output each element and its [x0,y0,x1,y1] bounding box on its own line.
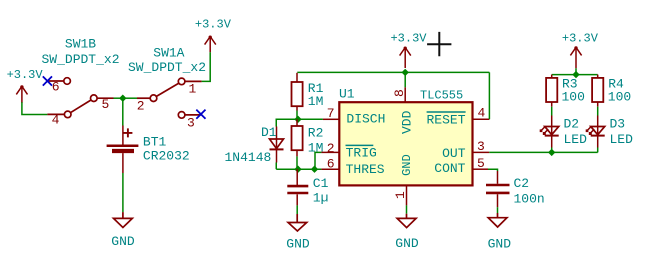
svg-text:CR2032: CR2032 [143,149,190,164]
junction [548,149,555,156]
svg-text:1: 1 [188,82,196,97]
wire [123,97,137,99]
pin 7 stub [323,118,339,120]
svg-text:100: 100 [608,89,631,104]
svg-text:U1: U1 [339,87,355,102]
svg-text:C2: C2 [514,176,530,191]
wire (top rail) [297,71,489,73]
wire [551,107,553,116]
svg-text:100: 100 [562,89,585,104]
pin 4 stub [473,118,489,120]
svg-text:1N4148: 1N4148 [225,150,272,165]
resistor R3 [546,75,557,107]
capacitor C1 [287,169,308,205]
diode D1 [270,127,284,163]
wire (pin2 net) [315,152,321,169]
wire [122,173,124,212]
resistor R1 [292,73,303,111]
svg-text:LED: LED [564,132,588,147]
wire [275,163,277,170]
svg-text:SW_DPDT_x2: SW_DPDT_x2 [41,52,119,67]
svg-text:6: 6 [52,79,60,94]
power +3.3V P3 (VDD) [400,48,411,69]
power +3.3V P2 (SW1A pin1) [205,37,216,53]
svg-text:+3.3V: +3.3V [390,32,427,46]
svg-text:D2: D2 [564,117,580,132]
wire [202,52,211,81]
capacitor C2 [486,171,510,207]
ground (battery) [114,212,133,227]
svg-text:LED: LED [610,132,634,147]
wire (pin4 to top rail) [488,72,490,119]
ground (C1) [288,214,307,231]
svg-text:4: 4 [478,105,486,120]
power +3.3V P1 (left, SW1B pin4) [16,86,27,103]
wire [296,156,298,169]
pin 6 stub [321,168,338,170]
LED D2 [542,116,559,136]
svg-text:7: 7 [327,106,335,121]
wire [296,205,298,214]
svg-text:THRES: THRES [346,162,385,177]
power +3.3V P4 (R3/R4) [570,47,581,68]
junction (VDD) [402,69,409,76]
svg-text:GND: GND [286,237,310,252]
svg-text:100n: 100n [514,192,545,207]
svg-text:D3: D3 [610,117,626,132]
svg-text:RESET: RESET [426,112,465,127]
junction [119,95,126,102]
wire (to R3/R4 tops) [552,74,598,76]
op-amp U1 TLC555 body [339,102,472,185]
junction [294,116,301,123]
no-connect pin3 SW1A [196,110,205,119]
wire (to D1) [276,119,298,126]
cursor cross [427,32,451,56]
svg-text:D1: D1 [261,125,277,140]
wire (bottom net) [276,168,321,170]
wire [597,148,599,153]
wire [406,205,408,213]
wire [22,102,48,114]
wire (to pin7) [298,118,323,120]
svg-text:GND: GND [400,154,414,176]
svg-text:4: 4 [52,112,60,127]
wire [597,107,599,116]
wire [488,169,498,171]
wire [404,72,406,87]
svg-text:VDD: VDD [400,110,415,134]
svg-text:1M: 1M [308,94,324,109]
svg-text:GND: GND [395,236,419,251]
pin 1 stub [406,186,408,205]
svg-text:5: 5 [101,97,109,112]
resistor R4 [592,75,603,107]
wire [497,207,499,213]
svg-text:3: 3 [477,139,485,154]
svg-text:BT1: BT1 [143,134,167,149]
svg-text:TLC555: TLC555 [420,89,463,103]
svg-text:+3.3V: +3.3V [7,68,44,82]
no-connect pin6 SW1B [43,76,52,85]
svg-text:3: 3 [187,116,195,131]
svg-text:GND: GND [111,234,135,249]
svg-text:+3.3V: +3.3V [195,18,232,32]
svg-text:SW_DPDT_x2: SW_DPDT_x2 [128,60,206,75]
junction [311,166,318,173]
svg-text:TRIG: TRIG [346,146,377,161]
junction [572,71,579,78]
ground (U1 pin1) [397,214,416,228]
battery BT1 [107,126,139,174]
wire [575,68,577,74]
svg-text:OUT: OUT [442,146,466,161]
pin 2 stub [321,151,338,153]
svg-text:1µ: 1µ [313,190,329,205]
svg-text:SW1A: SW1A [153,45,184,60]
svg-text:GND: GND [488,237,512,252]
wire [551,148,553,153]
svg-text:DISCH: DISCH [346,112,385,127]
svg-text:SW1B: SW1B [65,36,96,51]
svg-text:R2: R2 [308,126,324,141]
pin 3 stub [473,151,489,153]
wire (junction to battery) [122,98,124,125]
pin 8 stub [404,87,406,102]
svg-text:CONT: CONT [434,161,465,176]
svg-text:6: 6 [327,156,335,171]
wire (OUT net) [489,151,597,153]
pin 5 stub [473,168,488,170]
svg-text:+3.3V: +3.3V [562,32,599,46]
resistor R2 [292,119,303,156]
svg-text:2: 2 [327,141,335,156]
svg-text:2: 2 [137,98,145,113]
wire [114,97,123,99]
svg-text:C1: C1 [313,176,329,191]
ground (C2) [488,213,507,227]
junction [294,166,301,173]
wire [296,111,298,120]
LED D3 [588,116,605,136]
